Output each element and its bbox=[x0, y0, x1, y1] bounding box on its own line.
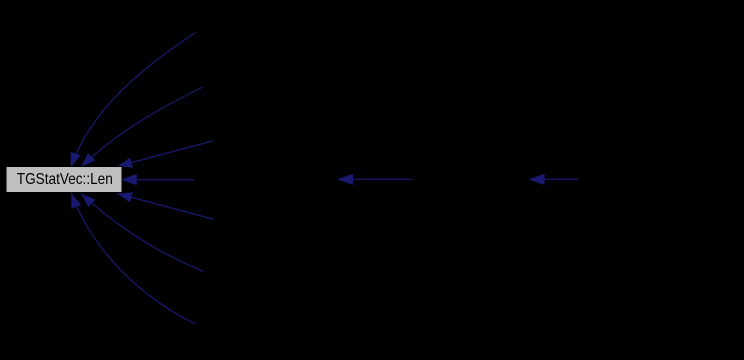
edge G: caller row7 curve into node bottom bbox=[71, 193, 195, 324]
svg-text:TGStatVec::Len: TGStatVec::Len bbox=[17, 171, 113, 188]
edge B: caller row2 curve into node top bbox=[81, 87, 203, 167]
edge E: caller row5 line into node bottom-right corner bbox=[117, 192, 213, 219]
edge R: third-level caller arrow (right column) bbox=[529, 174, 579, 185]
node TGStatVec::Len bbox=[6, 167, 122, 193]
edge M: second-level caller arrow (middle column) bbox=[337, 174, 411, 185]
edge D: caller row4 horizontal line into node right edge bbox=[121, 174, 195, 185]
edge A: caller row1 curve into node top bbox=[71, 33, 196, 168]
edge F: caller row6 curve into node bottom bbox=[81, 194, 203, 272]
edge C: caller row3 line into node top-right corner bbox=[117, 141, 213, 168]
